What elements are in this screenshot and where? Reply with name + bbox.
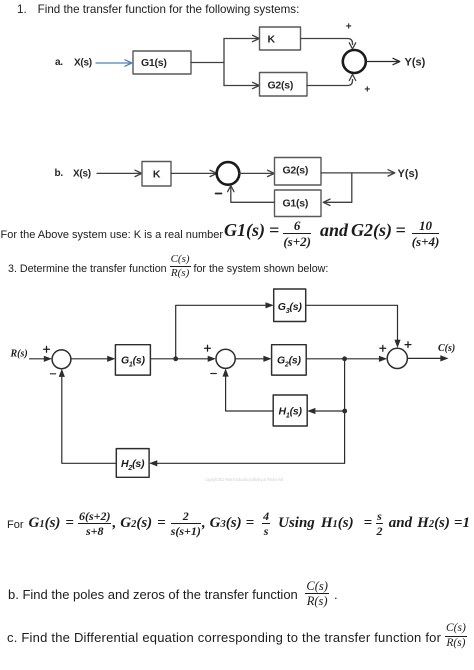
wire: X(s) to K bbox=[97, 170, 142, 176]
title line 1 bbox=[17, 3, 299, 16]
wire: node down feedback trunk bbox=[344, 359, 346, 464]
block K (b) bbox=[142, 162, 171, 187]
plus sign S3 right bbox=[405, 342, 411, 348]
wire: node up to G3 bbox=[176, 302, 274, 359]
label Y(s) output b bbox=[398, 168, 419, 180]
wire: node to H1 bbox=[307, 408, 345, 414]
plus sign top (a) bbox=[346, 22, 352, 33]
wire: summer to Y(s) a bbox=[366, 58, 400, 64]
svg-text:+: + bbox=[346, 22, 352, 33]
wire: branch to G1 (b) bbox=[323, 199, 352, 205]
svg-text:K: K bbox=[153, 169, 161, 181]
svg-text:+: + bbox=[364, 85, 370, 96]
minus sign S1 bbox=[50, 373, 55, 375]
wire: G1 output to branch bbox=[191, 62, 224, 64]
plus sign bottom (a) bbox=[364, 85, 370, 96]
node after G2 bbox=[342, 356, 347, 361]
wire: X(s) to G1 (blue arrow) bbox=[96, 60, 132, 66]
plus sign S3 left bbox=[380, 345, 386, 351]
text: 3. Determine bbox=[8, 253, 328, 279]
wire: S1 to G1 bbox=[71, 356, 116, 362]
block G2(s) a bbox=[260, 73, 308, 97]
copyright tiny bbox=[205, 477, 283, 482]
svg-text:H1(s): H1(s) bbox=[279, 406, 303, 420]
wire: G1 to summer (b) bbox=[228, 186, 275, 203]
summing junction S3 bbox=[387, 348, 407, 368]
svg-text:X(s): X(s) bbox=[73, 169, 91, 180]
wire: summer to G2 (b) bbox=[239, 170, 274, 176]
svg-text:Y(s): Y(s) bbox=[398, 168, 419, 180]
wire: R(s) to S1 bbox=[30, 356, 53, 362]
wire: branch to G2 bbox=[224, 82, 259, 88]
svg-text:G2(s): G2(s) bbox=[277, 354, 302, 368]
wire: branch to K bbox=[224, 35, 259, 41]
math line: For G1(s)= ... bbox=[7, 510, 470, 537]
svg-text:a.: a. bbox=[55, 57, 63, 68]
block G2(s) d3 bbox=[272, 345, 307, 375]
wire: trunk to H2 bbox=[149, 460, 345, 466]
minus sign S2 bbox=[211, 373, 217, 375]
label a. bbox=[55, 57, 63, 68]
label C(s) bbox=[438, 343, 455, 354]
summing junction S1 bbox=[52, 350, 71, 369]
svg-text:K: K bbox=[268, 34, 276, 46]
svg-text:Y(s): Y(s) bbox=[405, 57, 426, 69]
svg-text:G2(s): G2(s) bbox=[283, 165, 309, 177]
wire: S2 to G2 bbox=[235, 356, 271, 362]
wire: feedback branch down (b) bbox=[351, 173, 353, 202]
wire: G2 to summer bottom bbox=[307, 74, 356, 85]
svg-text:X(s): X(s) bbox=[74, 58, 92, 69]
block G1(s) b bbox=[275, 190, 322, 217]
svg-text:G2(s): G2(s) bbox=[268, 80, 294, 92]
block H1(s) bbox=[273, 395, 307, 426]
minus sign (b) bbox=[216, 193, 222, 195]
block G3(s) bbox=[274, 289, 306, 322]
summing junction (b) bbox=[217, 162, 240, 185]
svg-text:R(s): R(s) bbox=[10, 349, 28, 360]
wire: H1 to S2 bottom bbox=[223, 368, 274, 411]
summing junction S2 bbox=[216, 349, 235, 368]
plus sign S2 bbox=[205, 345, 211, 351]
label X(s) input a bbox=[74, 58, 92, 69]
wire: G1 to S2 bbox=[150, 356, 216, 362]
plus sign S1 bbox=[44, 346, 50, 352]
wire: K to summer (b) bbox=[171, 170, 217, 176]
block G2(s) b bbox=[275, 158, 322, 186]
label b. bbox=[55, 168, 64, 179]
b line bbox=[8, 583, 338, 604]
block H2(s) bbox=[116, 449, 149, 478]
wire: K to summer top bbox=[301, 39, 356, 50]
label Y(s) output a bbox=[405, 57, 426, 69]
label R(s) bbox=[10, 349, 28, 360]
svg-text:G3(s): G3(s) bbox=[278, 301, 303, 315]
svg-text:G1(s): G1(s) bbox=[141, 57, 167, 69]
wire: H2 to S1 bottom bbox=[59, 369, 117, 464]
block G1(s) bbox=[133, 51, 191, 74]
node at H1 level bbox=[342, 409, 347, 414]
svg-text:b.: b. bbox=[55, 168, 64, 179]
block K bbox=[260, 27, 301, 50]
wire: G2 to S3 bbox=[306, 356, 387, 362]
svg-text:H2(s): H2(s) bbox=[121, 458, 145, 472]
block G1(s) d3 bbox=[115, 345, 150, 375]
node after G1 bbox=[173, 356, 178, 361]
wire: S3 to C(s) bbox=[407, 355, 448, 361]
text: For the Above system use bbox=[1, 219, 440, 247]
svg-text:G1(s): G1(s) bbox=[121, 354, 146, 368]
svg-text:G1(s): G1(s) bbox=[283, 198, 309, 210]
c line bbox=[7, 625, 467, 647]
svg-text:C(s): C(s) bbox=[438, 343, 455, 354]
summing junction (a) bbox=[343, 50, 366, 73]
wire: branch vertical bbox=[223, 39, 225, 86]
label X(s) input b bbox=[73, 169, 91, 180]
wire: G2 to Y(s) b bbox=[321, 170, 395, 176]
wire: G3 to S3 top bbox=[306, 305, 401, 348]
